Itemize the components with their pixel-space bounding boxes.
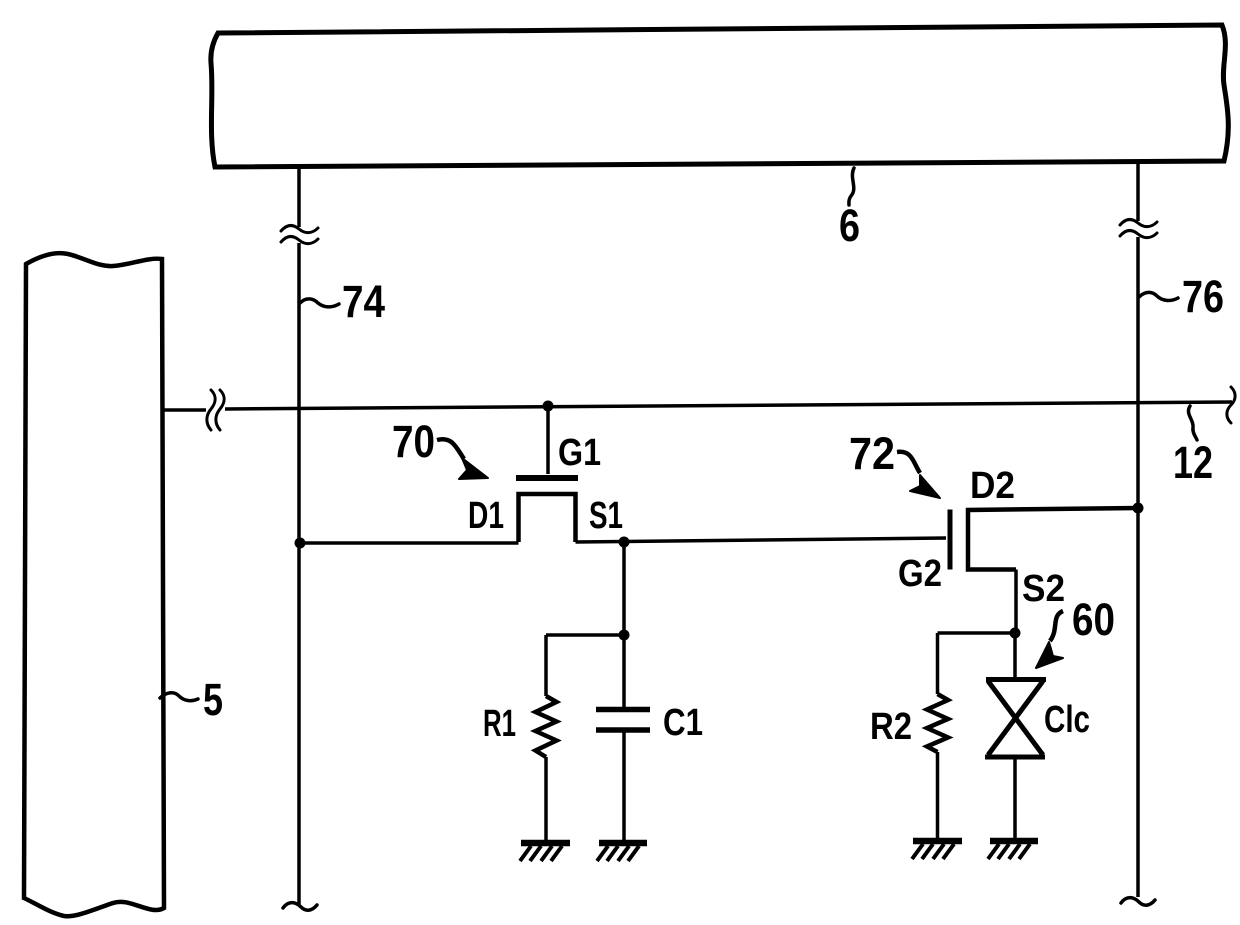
wire S1 node down to RC branch [622, 542, 626, 635]
wire 12 break symbol [207, 390, 215, 430]
wire 74 end squiggle [283, 903, 317, 911]
transistor Q2 channel [968, 508, 1138, 570]
svg-text:72: 72 [849, 428, 895, 479]
wire 12 right end squiggle [1227, 387, 1235, 423]
Clc bottom lead [1013, 758, 1017, 839]
wire: source S1 to gate G2 [576, 538, 947, 542]
ground under C1 [597, 843, 647, 861]
branch wire to R2 [938, 631, 1017, 635]
leader squiggle for 6 [849, 168, 854, 205]
resistor R1 [536, 696, 557, 757]
svg-text:70: 70 [392, 416, 435, 467]
wire 74 lower segment [297, 243, 301, 906]
resistor R2 [927, 694, 948, 752]
node at S2 branch [1010, 628, 1021, 639]
wire 76 break symbol [1120, 219, 1157, 226]
svg-text:D1: D1 [468, 495, 504, 537]
svg-text:5: 5 [203, 674, 223, 725]
C1 top lead [622, 635, 626, 707]
R1 top lead [544, 635, 548, 696]
R2 bottom lead [936, 752, 940, 839]
electrode bar 6 (top horizontal strip) [211, 25, 1228, 167]
node at S1 [619, 537, 630, 548]
wire 76 end squiggle [1121, 898, 1155, 906]
leader tilde for 76 [1139, 292, 1178, 300]
electrode bar 5 (left vertical strip) [24, 253, 164, 916]
ground under R1 [520, 843, 570, 861]
leader tilde for 5 [160, 693, 198, 701]
node at D2 on wire 76 [1133, 503, 1144, 514]
ground under R2 [912, 841, 962, 859]
wire S2 down to branch [1014, 570, 1018, 634]
branch wire to R1 [546, 633, 624, 637]
svg-text:S1: S1 [589, 495, 623, 537]
svg-text:D2: D2 [970, 465, 1015, 507]
transistor Q1 (70) gate lead [546, 406, 550, 474]
svg-text:6: 6 [839, 200, 860, 251]
svg-text:Clc: Clc [1044, 699, 1090, 741]
svg-text:76: 76 [1182, 271, 1224, 322]
capacitor C1 bottom plate [596, 727, 650, 733]
transistor Q2 (72) gate bar [948, 510, 953, 570]
arrow for 60 [1050, 611, 1063, 641]
arrow for 70 [437, 439, 464, 459]
svg-text:12: 12 [1173, 437, 1213, 488]
wire 74 break symbol [281, 225, 318, 232]
wire 12 left stub from bar 5 [162, 408, 206, 412]
svg-text:74: 74 [342, 276, 385, 327]
svg-text:G2: G2 [898, 553, 942, 595]
svg-text:S2: S2 [1022, 568, 1065, 610]
wire 76 lower segment [1136, 237, 1140, 897]
ground under Clc [988, 841, 1038, 859]
svg-text:60: 60 [1072, 594, 1115, 645]
svg-text:C1: C1 [663, 702, 703, 744]
wire 12 main run [225, 402, 1232, 409]
node on wire 12 at gate G1 [543, 401, 554, 412]
Clc top lead [1013, 633, 1017, 678]
liquid crystal cell Clc (60) [985, 680, 1046, 758]
transistor Q1 channel [519, 494, 576, 542]
capacitor C1 top plate [596, 707, 650, 713]
arrow for 72 [897, 452, 920, 473]
node on wire 74 [295, 538, 306, 549]
transistor Q1 gate bar [516, 475, 578, 481]
R1 bottom lead [544, 757, 548, 841]
R2 top lead [936, 633, 940, 694]
C1 bottom lead [622, 732, 626, 841]
svg-text:R1: R1 [483, 703, 516, 745]
node at branch [619, 630, 630, 641]
leader squiggle for 12 [1188, 406, 1197, 440]
wire: node 74 to drain D1 [300, 541, 519, 545]
svg-text:G1: G1 [558, 432, 601, 474]
leader tilde for 74 [300, 299, 339, 307]
wire 76 upper segment [1136, 160, 1140, 221]
wire 74 upper segment [297, 165, 301, 227]
svg-text:R2: R2 [870, 706, 912, 748]
